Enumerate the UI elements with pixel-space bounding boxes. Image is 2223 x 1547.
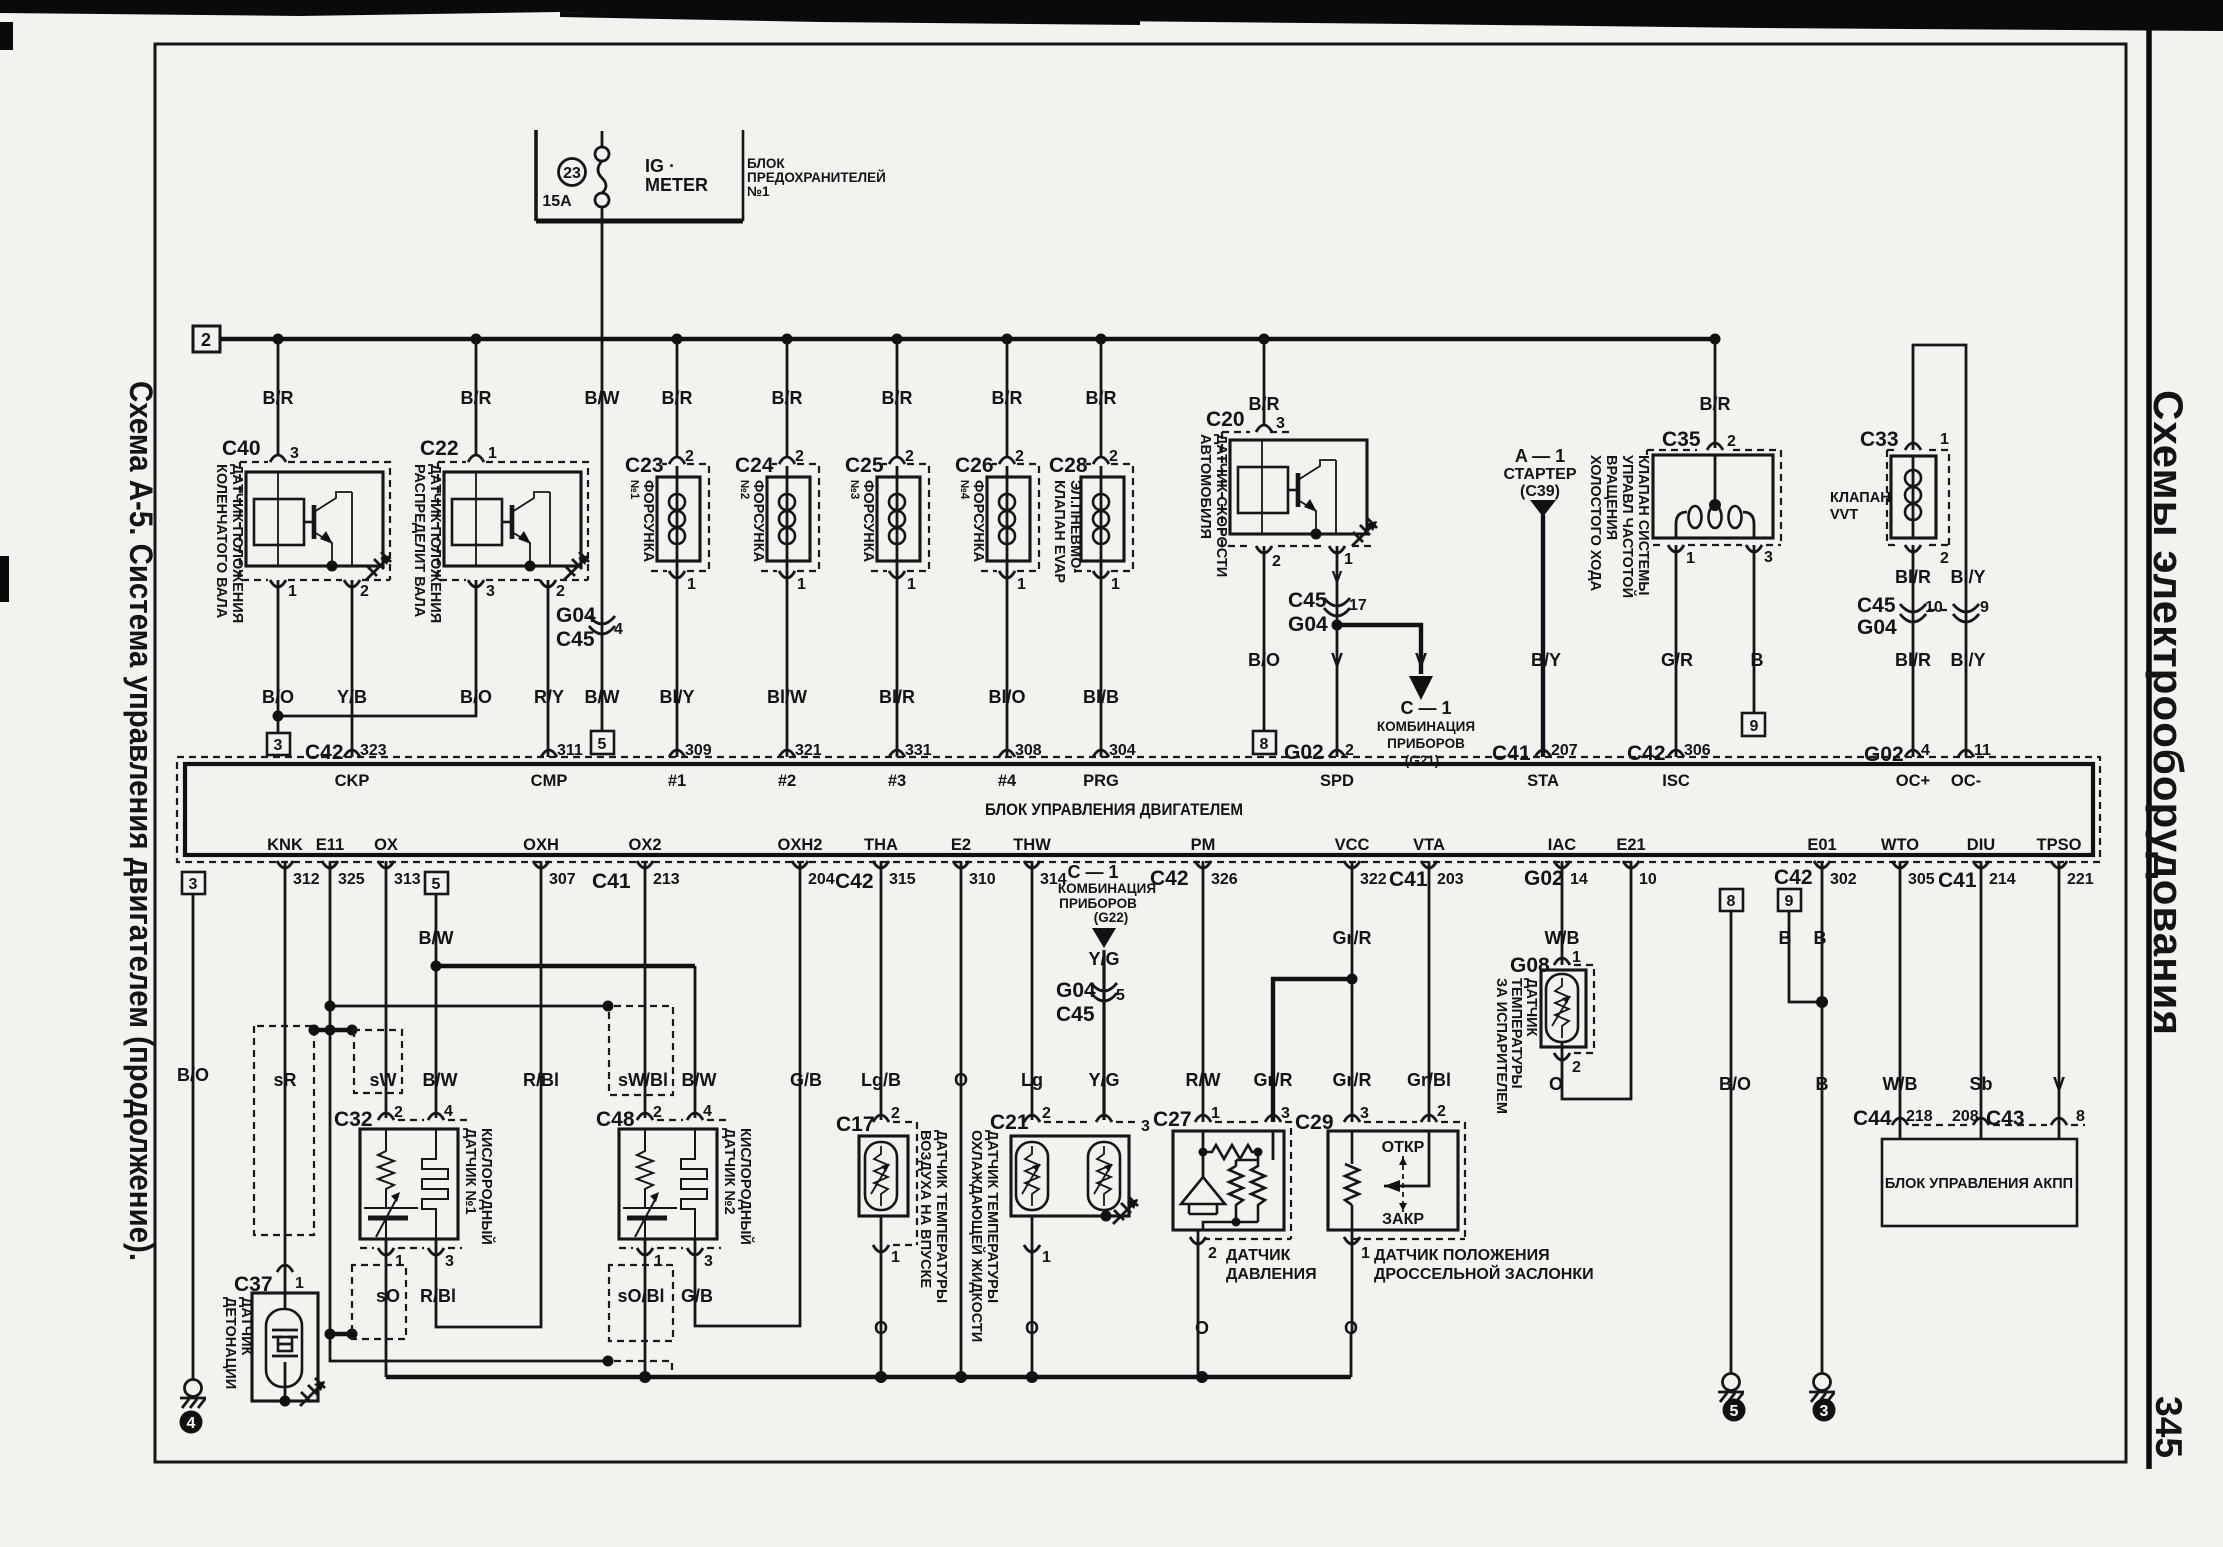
node box 8 below ECU [1720, 889, 1743, 911]
svg-text:ВРАЩЕНИЯ: ВРАЩЕНИЯ [1603, 455, 1619, 540]
wire Lg THW to C21 [1031, 861, 1034, 1120]
svg-text:sR: sR [273, 1070, 296, 1090]
ECU pin PRG 304 [1083, 742, 1136, 790]
wire Bl/W from C24 to ECU [786, 571, 789, 757]
svg-text:B/O: B/O [177, 1065, 209, 1085]
wire Bl/B from C28 to ECU [1100, 571, 1103, 757]
pressure sensor C27 [1153, 1105, 1291, 1262]
wire G/R C35 pin1 to ECU ISC [1675, 545, 1678, 757]
svg-text:ОТКР: ОТКР [1382, 1139, 1425, 1156]
wire B/R to injector column x=787 [786, 339, 789, 457]
svg-text:E01: E01 [1807, 836, 1836, 854]
svg-text:Bl/W: Bl/W [767, 687, 807, 707]
fuse 23 15A IG-METER [542, 131, 708, 210]
svg-text:325: 325 [338, 871, 365, 888]
wire Bl/R C33 pin2 to ECU OC+ [1912, 545, 1915, 757]
svg-text:ВОЗДУХА НА ВПУСКЕ: ВОЗДУХА НА ВПУСКЕ [917, 1130, 933, 1288]
svg-text:R/Bl: R/Bl [523, 1070, 559, 1090]
svg-text:B/W: B/W [419, 928, 454, 948]
svg-text:5: 5 [432, 876, 441, 893]
svg-text:C42: C42 [1627, 742, 1666, 765]
wire G/B C48 pin3 to ECU OXH2 [695, 861, 800, 1326]
label: КИСЛОРОДНЫЙ ДАТЧИК №1 [462, 1128, 496, 1245]
svg-text:221: 221 [2067, 871, 2094, 888]
svg-text:ДАТЧИК №1: ДАТЧИК №1 [462, 1128, 478, 1215]
svg-text:E21: E21 [1616, 836, 1645, 854]
svg-text:ПРИБОРОВ: ПРИБОРОВ [1387, 736, 1465, 751]
svg-text:ОХЛАЖДАЮЩЕЙ ЖИДКОСТИ: ОХЛАЖДАЮЩЕЙ ЖИДКОСТИ [968, 1130, 986, 1342]
svg-text:B/Y: B/Y [1531, 650, 1561, 670]
svg-text:B/R: B/R [1249, 394, 1280, 414]
svg-text:БЛОК: БЛОК [747, 156, 785, 171]
wire O from C21 to bus [1031, 1245, 1034, 1377]
svg-text:B/O: B/O [1719, 1074, 1751, 1094]
svg-text:B/O: B/O [1248, 650, 1280, 670]
svg-text:5: 5 [1116, 987, 1125, 1004]
svg-text:C45: C45 [1056, 1003, 1095, 1026]
svg-text:Bl/O: Bl/O [988, 687, 1025, 707]
svg-text:ДЕТОНАЦИИ: ДЕТОНАЦИИ [222, 1297, 238, 1389]
svg-text:2: 2 [1727, 433, 1736, 450]
svg-text:4: 4 [614, 621, 623, 638]
svg-text:15A: 15A [542, 193, 572, 210]
node box 9 [1742, 713, 1765, 736]
wire B/R to C35 [1714, 339, 1717, 448]
svg-text:C42: C42 [835, 870, 874, 893]
svg-text:B/R: B/R [1086, 388, 1117, 408]
svg-text:1: 1 [1111, 576, 1120, 593]
wire Bl/O from C26 to ECU [1006, 571, 1009, 757]
svg-text:1: 1 [1344, 551, 1353, 568]
wire O E2 to bus [960, 861, 963, 1377]
svg-text:C22: C22 [420, 437, 459, 460]
sensor C22 (camshaft position) body [420, 437, 589, 600]
svg-text:CKP: CKP [335, 772, 370, 790]
sensor C40 (crankshaft position) body [222, 437, 391, 600]
svg-text:C35: C35 [1662, 428, 1701, 451]
svg-text:B: B [1814, 928, 1827, 948]
svg-text:10: 10 [1639, 871, 1657, 888]
wire B E01 to ground 3 [1821, 861, 1824, 1374]
svg-text:2: 2 [1042, 1105, 1051, 1122]
svg-text:ФОРСУНКА: ФОРСУНКА [640, 480, 656, 563]
label: КЛАПАН VVT [1830, 490, 1891, 523]
ECU pin #1 309 [668, 742, 712, 790]
svg-text:B/W: B/W [423, 1070, 458, 1090]
svg-text:IAC: IAC [1548, 836, 1577, 854]
svg-text:(C39): (C39) [1520, 483, 1560, 500]
svg-text:305: 305 [1908, 871, 1935, 888]
svg-text:#1: #1 [668, 772, 686, 790]
svg-text:R/Bl: R/Bl [420, 1286, 456, 1306]
wire B/W node5 branch to O2 heaters [419, 872, 696, 1118]
svg-text:11: 11 [1974, 742, 1991, 759]
svg-text:5: 5 [598, 736, 607, 753]
knock sensor C37 [234, 1265, 325, 1407]
svg-text:Bl/Y: Bl/Y [1950, 650, 1985, 670]
svg-text:Bl/Y: Bl/Y [659, 687, 694, 707]
svg-text:W/B: W/B [1545, 928, 1580, 948]
valve C35 (idle speed control) body [1647, 428, 1781, 567]
svg-text:3: 3 [1141, 1118, 1150, 1135]
connector G04/C45 on Y/G [1056, 979, 1125, 1026]
svg-text:4: 4 [187, 1415, 196, 1432]
sensor C20 (vehicle speed) body [1206, 408, 1377, 570]
svg-text:345: 345 [2148, 1396, 2189, 1458]
wire sW / OX to C32 pin2 [385, 861, 388, 1118]
svg-text:РАСПРЕДЕЛИТ ВАЛА: РАСПРЕДЕЛИТ ВАЛА [411, 464, 427, 618]
branch V wire to combination meter G21 [1332, 620, 1476, 769]
svg-text:1: 1 [907, 576, 916, 593]
svg-text:203: 203 [1437, 871, 1464, 888]
svg-text:ПРИБОРОВ: ПРИБОРОВ [1059, 896, 1137, 911]
wire Lg/B THA to C17 [880, 861, 883, 1120]
svg-text:(G22): (G22) [1094, 910, 1129, 925]
ECU pin OXH 307 [523, 836, 576, 888]
svg-text:SPD: SPD [1320, 772, 1354, 790]
ECU pin THW 314 [1013, 836, 1067, 888]
svg-text:№2: №2 [738, 480, 750, 499]
scan artifact: top black bar [0, 0, 2223, 31]
svg-text:2: 2 [1572, 1059, 1581, 1076]
svg-text:9: 9 [1980, 599, 1989, 616]
svg-text:B/R: B/R [882, 388, 913, 408]
ECU pin IAC 14 [1548, 836, 1588, 888]
wire Bl/Y from C23 to ECU [676, 571, 679, 757]
svg-text:2: 2 [1437, 1103, 1446, 1120]
svg-text:G/B: G/B [790, 1070, 822, 1090]
svg-text:VTA: VTA [1413, 836, 1445, 854]
label: БЛОК ПРЕДОХРАНИТЕЛЕЙ №1 [747, 156, 886, 199]
svg-text:C48: C48 [596, 1108, 635, 1131]
svg-text:V: V [2053, 1074, 2065, 1094]
svg-text:4: 4 [444, 1103, 453, 1120]
label: ДАТЧИК ДЕТОНАЦИИ [222, 1297, 254, 1389]
svg-text:DIU: DIU [1967, 836, 1995, 854]
svg-text:ДАТЧИК ПОЛОЖЕНИЯ: ДАТЧИК ПОЛОЖЕНИЯ [229, 464, 245, 623]
throttle position sensor C29 [1295, 1103, 1465, 1262]
node box 5 above ECU [591, 731, 614, 754]
svg-text:OXH: OXH [523, 836, 559, 854]
svg-text:КЛАПАН: КЛАПАН [1830, 490, 1891, 506]
wire Gr/R VCC with branch to C27 pin3 [1253, 861, 1371, 1122]
svg-text:C20: C20 [1206, 408, 1245, 431]
node box 9 below ECU [1778, 889, 1801, 911]
svg-text:E11: E11 [316, 836, 344, 854]
connector C45/G04 on SPD wire [1288, 589, 1367, 636]
svg-text:1: 1 [654, 1253, 663, 1270]
svg-text:ХОЛОСТОГО ХОДА: ХОЛОСТОГО ХОДА [1587, 455, 1603, 592]
svg-text:2: 2 [394, 1104, 403, 1121]
node box 3 below ECU (KNK B/O) [182, 872, 205, 894]
svg-text:ДАТЧИК: ДАТЧИК [1523, 978, 1539, 1037]
shield box around sW [354, 1030, 402, 1093]
svg-text:312: 312 [293, 871, 320, 888]
svg-text:ДАТЧИК ПОЛОЖЕНИЯ: ДАТЧИК ПОЛОЖЕНИЯ [1374, 1247, 1550, 1264]
wire O from C17 to bus [880, 1245, 883, 1377]
svg-text:C43: C43 [1986, 1107, 2025, 1130]
svg-text:1: 1 [295, 1275, 304, 1292]
ECU pin VTA 203 [1413, 836, 1464, 888]
svg-text:A — 1: A — 1 [1515, 446, 1565, 466]
svg-text:№3: №3 [848, 480, 860, 499]
node box 3 above ECU [267, 733, 290, 755]
svg-text:14: 14 [1570, 871, 1588, 888]
svg-text:1: 1 [891, 1249, 900, 1266]
svg-text:213: 213 [653, 871, 680, 888]
svg-text:3: 3 [1360, 1105, 1369, 1122]
svg-text:КИСЛОРОДНЫЙ: КИСЛОРОДНЫЙ [478, 1128, 496, 1245]
svg-text:PRG: PRG [1083, 772, 1119, 790]
ECU pin CKP 323 [335, 742, 387, 790]
AT control unit box [1882, 1139, 2077, 1226]
svg-text:sO/Bl: sO/Bl [617, 1286, 664, 1306]
svg-text:B/R: B/R [772, 388, 803, 408]
oxygen sensor C48 [596, 1103, 729, 1270]
svg-text:C28: C28 [1049, 454, 1088, 477]
svg-text:3: 3 [1820, 1403, 1829, 1420]
svg-text:2: 2 [1940, 550, 1949, 567]
ECU pin E01 302 [1807, 836, 1856, 888]
svg-text:3: 3 [1281, 1105, 1290, 1122]
ECU pin OXH2 204 [778, 836, 835, 888]
svg-text:ЭЛ.ПНЕВМО-: ЭЛ.ПНЕВМО- [1067, 480, 1083, 573]
valve C33 (VVT) body [1860, 428, 1949, 567]
svg-text:311: 311 [557, 742, 583, 759]
svg-text:Y/G: Y/G [1088, 1070, 1119, 1090]
connector G04/C45 on B/W wire [556, 604, 623, 651]
svg-text:OX2: OX2 [628, 836, 661, 854]
oxygen sensor C32 [334, 1103, 470, 1270]
svg-text:B/O: B/O [460, 687, 492, 707]
ECU pin E11 325 [316, 836, 365, 888]
svg-text:C45: C45 [1857, 594, 1896, 617]
ECU pin STA 207 [1527, 742, 1578, 790]
svg-text:№1: №1 [628, 480, 640, 500]
injector C26 [955, 448, 1039, 593]
svg-text:C23: C23 [625, 454, 664, 477]
svg-text:КЛАПАН EVAP: КЛАПАН EVAP [1051, 480, 1067, 583]
svg-text:1: 1 [288, 583, 297, 600]
svg-text:C42: C42 [1774, 866, 1813, 889]
combination meter G22 feed arrow [1058, 862, 1156, 948]
svg-text:2: 2 [653, 1104, 662, 1121]
wire O from C29 pin1 to bus end [1351, 1237, 1352, 1377]
svg-text:2: 2 [795, 448, 804, 465]
ECU pin VCC 322 [1335, 836, 1387, 888]
svg-text:sW: sW [370, 1070, 397, 1090]
svg-text:5: 5 [1730, 1403, 1739, 1420]
svg-text:CMP: CMP [531, 772, 568, 790]
AT control unit connector row C44/C43 [1853, 1107, 2085, 1139]
wire B/Y starter to ECU STA [1541, 515, 1545, 757]
ECU pin E21 10 [1616, 836, 1657, 888]
label: ДАТЧИК ТЕМПЕРАТУРЫ ВОЗДУХА НА ВПУСКЕ [917, 1130, 949, 1303]
wire W/B WTO to C44 [1899, 861, 1902, 1125]
svg-text:METER: METER [645, 175, 708, 195]
label: КЛАПАН СИСТЕМЫ УПРАВЛ ЧАСТОТОЙ ВРАЩЕНИЯ ХОЛОСТОГО ХОДА [1587, 455, 1651, 598]
wire Y/B from C40 pin2 to ECU CKP [351, 580, 354, 757]
ECU pin ISC 306 [1662, 742, 1711, 790]
connector C45/G04 on OC wires [1857, 594, 1989, 639]
svg-text:КИСЛОРОДНЫЙ: КИСЛОРОДНЫЙ [737, 1128, 755, 1245]
svg-text:B/W: B/W [585, 388, 620, 408]
svg-text:1: 1 [1940, 431, 1949, 448]
ECU pin OX2 213 [628, 836, 679, 888]
svg-text:B/R: B/R [662, 388, 693, 408]
svg-text:307: 307 [549, 871, 576, 888]
wire V TPSO to C43 [2058, 861, 2061, 1125]
svg-text:B/R: B/R [263, 388, 294, 408]
svg-text:2: 2 [1272, 553, 1281, 570]
svg-text:B: B [1779, 928, 1792, 948]
svg-text:КЛАПАН СИСТЕМЫ: КЛАПАН СИСТЕМЫ [1635, 455, 1651, 596]
wire B/O node3 to ground 4 [192, 894, 195, 1379]
svg-text:2: 2 [1015, 448, 1024, 465]
injector C28 [1049, 448, 1133, 593]
svg-text:B/W: B/W [682, 1070, 717, 1090]
svg-text:B: B [1751, 650, 1764, 670]
svg-text:Y/G: Y/G [1088, 949, 1119, 969]
svg-text:C26: C26 [955, 454, 994, 477]
svg-text:304: 304 [1109, 742, 1136, 759]
svg-text:3: 3 [189, 876, 198, 893]
svg-text:V: V [1331, 650, 1343, 670]
svg-text:G04: G04 [1056, 979, 1096, 1002]
ECU pin KNK 312 [267, 836, 320, 888]
svg-text:1: 1 [687, 576, 696, 593]
svg-text:3: 3 [704, 1253, 713, 1270]
bus junction dots [273, 334, 1721, 345]
svg-text:1: 1 [1572, 949, 1581, 966]
svg-text:G02: G02 [1864, 743, 1904, 766]
svg-text:3: 3 [274, 737, 283, 754]
ground symbol with disc 4 [180, 1380, 207, 1434]
wire R/Bl C32 pin3 to ECU OXH [436, 861, 541, 1327]
svg-text:ДАТЧИК ПОЛОЖЕНИЯ: ДАТЧИК ПОЛОЖЕНИЯ [427, 464, 443, 623]
ECU pin #4 308 [998, 742, 1042, 790]
svg-text:V: V [1332, 569, 1343, 586]
svg-text:C42: C42 [305, 741, 344, 764]
wire B C35 pin3 to node 9 [1753, 545, 1756, 713]
svg-text:1: 1 [797, 576, 806, 593]
node box 2 (power feed) [193, 326, 220, 352]
label: ДАТЧИК ТЕМПЕРАТУРЫ ЗА ИСПАРИТЕЛЕМ [1493, 978, 1539, 1114]
svg-text:9: 9 [1785, 893, 1794, 910]
svg-text:9: 9 [1750, 718, 1759, 735]
svg-text:3: 3 [1764, 549, 1773, 566]
svg-text:№1: №1 [747, 184, 770, 199]
svg-text:C41: C41 [1938, 869, 1977, 892]
svg-text:C25: C25 [845, 454, 884, 477]
svg-text:Bl/R: Bl/R [1895, 650, 1931, 670]
svg-text:C33: C33 [1860, 428, 1899, 451]
injector C23 [625, 448, 709, 593]
svg-text:1: 1 [488, 445, 497, 462]
wire R/W PM to C27 [1202, 861, 1205, 1122]
wire B node9 joins E01 [1779, 911, 1829, 1008]
svg-text:ДАТЧИК №2: ДАТЧИК №2 [721, 1128, 737, 1215]
ECU pin E2 310 [951, 836, 996, 888]
ECU pin CMP 311 [531, 742, 583, 790]
ECU pin #2 321 [778, 742, 822, 790]
svg-text:Gr/R: Gr/R [1332, 1070, 1371, 1090]
svg-text:БЛОК УПРАВЛЕНИЯ АКПП: БЛОК УПРАВЛЕНИЯ АКПП [1885, 1176, 2073, 1192]
ECU pin OC- 11 [1951, 742, 1991, 790]
wire W/B IAC to G08 [1561, 861, 1564, 965]
svg-text:ДАТЧИК: ДАТЧИК [238, 1297, 254, 1356]
evaporator temperature sensor G08 [1510, 949, 1594, 1076]
svg-text:KNK: KNK [267, 836, 303, 854]
wire Bl/R from C25 to ECU [896, 571, 899, 757]
svg-text:1: 1 [395, 1253, 404, 1270]
svg-text:C27: C27 [1153, 1108, 1192, 1131]
svg-text:E2: E2 [951, 836, 971, 854]
label: ДАТЧИК ПОЛОЖЕНИЯ ДРОССЕЛЬНОЙ ЗАСЛОНКИ [1374, 1247, 1594, 1283]
svg-text:VCC: VCC [1335, 836, 1370, 854]
svg-text:204: 204 [808, 871, 835, 888]
svg-text:1: 1 [1686, 550, 1695, 567]
wire Gr/Bl VTA to C29 pin2 [1428, 861, 1431, 1122]
svg-text:OX: OX [374, 836, 398, 854]
svg-text:C — 1: C — 1 [1067, 862, 1118, 882]
svg-text:B/R: B/R [461, 388, 492, 408]
svg-text:G04: G04 [1288, 613, 1328, 636]
svg-text:PM: PM [1191, 836, 1216, 854]
svg-text:ТЕМПЕРАТУРЫ: ТЕМПЕРАТУРЫ [1508, 978, 1524, 1089]
svg-text:C17: C17 [836, 1113, 875, 1136]
svg-text:2: 2 [1208, 1245, 1217, 1262]
svg-text:O: O [1025, 1318, 1039, 1338]
svg-text:Bl/Y: Bl/Y [1950, 567, 1985, 587]
ECU pin OX 313 [374, 836, 421, 888]
ECU pin DIU 214 [1967, 836, 2016, 888]
svg-text:W/B: W/B [1883, 1074, 1918, 1094]
svg-text:17: 17 [1349, 597, 1367, 614]
page separator vertical rule [2146, 26, 2152, 1469]
svg-text:THW: THW [1013, 836, 1051, 854]
svg-text:sW/Bl: sW/Bl [618, 1070, 668, 1090]
bus wire from node 2 [220, 337, 1715, 341]
svg-text:ДАТЧИК СКОРОСТИ: ДАТЧИК СКОРОСТИ [1213, 434, 1229, 577]
wire O G08 to E21 [1562, 861, 1631, 1099]
svg-text:C45: C45 [1288, 589, 1327, 612]
svg-text:B/R: B/R [992, 388, 1023, 408]
svg-text:O: O [1549, 1074, 1563, 1094]
svg-text:ФОРСУНКА: ФОРСУНКА [750, 480, 766, 563]
label: ДАТЧИК ДАВЛЕНИЯ [1226, 1247, 1317, 1283]
svg-text:G04: G04 [556, 604, 596, 627]
svg-text:1: 1 [1042, 1249, 1051, 1266]
wire sW/Bl / OX2 to C48 pin2 [644, 861, 647, 1118]
svg-text:#3: #3 [888, 772, 906, 790]
svg-text:ДАТЧИК: ДАТЧИК [1226, 1247, 1291, 1264]
svg-text:310: 310 [969, 871, 996, 888]
svg-text:Схемы электрооборудования: Схемы электрооборудования [2145, 390, 2192, 1035]
svg-text:2: 2 [556, 583, 565, 600]
svg-text:3: 3 [1276, 415, 1285, 432]
svg-text:ФОРСУНКА: ФОРСУНКА [860, 480, 876, 563]
wire B/R to injector column x=897 [896, 339, 899, 457]
svg-text:331: 331 [905, 742, 932, 759]
wire sR (KNK shielded) to C37 [284, 861, 287, 1272]
wire B/R to C40 [277, 339, 280, 455]
svg-text:ЗА ИСПАРИТЕЛЕМ: ЗА ИСПАРИТЕЛЕМ [1493, 978, 1509, 1114]
svg-text:ISC: ISC [1662, 772, 1690, 790]
svg-text:WTO: WTO [1881, 836, 1919, 854]
svg-text:B/O: B/O [262, 687, 294, 707]
wire E11 sensor ground net [309, 861, 614, 1367]
